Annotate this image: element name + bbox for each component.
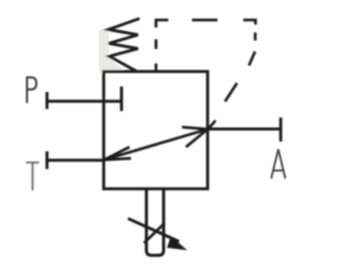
arrowhead right (A side) bbox=[182, 127, 208, 147]
label T bbox=[26, 163, 39, 191]
A tick bbox=[279, 118, 282, 142]
main diagonal arrow shaft bbox=[104, 129, 208, 160]
bottom arrowhead bbox=[167, 236, 187, 250]
port A line bbox=[208, 128, 281, 131]
spring bbox=[109, 19, 140, 72]
bottom arrow shaft bbox=[128, 219, 179, 242]
P outer tick bbox=[46, 92, 49, 109]
bottom drain channel bbox=[146, 189, 163, 255]
P inner tick bbox=[120, 87, 123, 112]
port T line bbox=[47, 159, 104, 162]
label A bbox=[271, 149, 285, 178]
pilot dashed line: vertical from box top bbox=[156, 20, 256, 128]
second diagonal in channel bbox=[144, 223, 165, 243]
T tick bbox=[46, 151, 49, 169]
port P line bbox=[47, 100, 122, 103]
label P bbox=[27, 77, 36, 103]
valve body box bbox=[104, 72, 208, 189]
arrowhead left (T side) bbox=[104, 147, 131, 160]
spring shading bbox=[99, 30, 124, 74]
